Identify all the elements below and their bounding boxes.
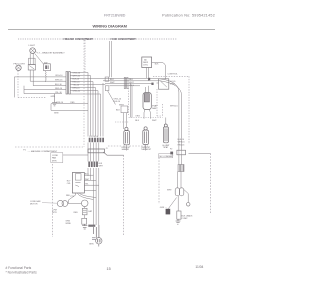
door switch twisted wire <box>45 71 46 82</box>
svg-text:BLK: BLK <box>110 79 114 81</box>
overload ovals <box>175 188 179 196</box>
svg-text:WHT: WHT <box>99 165 104 167</box>
power plug <box>96 238 102 244</box>
wires motor bottom <box>144 110 145 119</box>
wires through connector <box>88 143 99 226</box>
harness wire labels right <box>73 72 81 92</box>
wire curve to cold control <box>152 63 166 79</box>
wire cfm to compressor <box>68 202 82 204</box>
svg-text:MTR: MTR <box>52 212 57 214</box>
small box below-left of bus <box>105 86 109 91</box>
center vertical wires to evap <box>130 83 132 117</box>
wire curve to right drop B <box>160 81 182 150</box>
svg-text:WHT: WHT <box>110 82 115 84</box>
left dashed vertical <box>52 164 54 237</box>
svg-text:RED: RED <box>66 195 71 197</box>
connector J2 bars <box>66 72 68 95</box>
capacitor <box>82 208 87 215</box>
svg-text:123456: 123456 <box>89 136 98 138</box>
small box above left cylinder <box>121 106 128 113</box>
junction dots on bus <box>148 78 150 80</box>
right dashed enclosure top <box>153 75 189 77</box>
svg-text:HEATER: HEATER <box>122 148 130 151</box>
svg-text:COND: COND <box>52 155 59 157</box>
plug prong <box>92 237 96 239</box>
hatched resistor block <box>178 165 184 172</box>
right bottom wire labels <box>178 139 185 147</box>
ground block <box>82 218 87 224</box>
svg-text:CONTROL: CONTROL <box>168 73 179 75</box>
wire drops from food label <box>109 41 111 77</box>
svg-text:ORG: ORG <box>135 116 140 118</box>
right box dashed edge <box>210 154 212 214</box>
solid line left of connector box <box>63 154 88 156</box>
fresh food light bulb <box>30 48 36 54</box>
svg-text:MOTOR: MOTOR <box>30 203 38 205</box>
ground clamp dark <box>166 209 171 215</box>
svg-text:FOOD COMPARTMENT: FOOD COMPARTMENT <box>111 38 137 41</box>
svg-text:BLK-16: BLK-16 <box>73 78 81 80</box>
inline connector B bars <box>124 78 125 89</box>
dark blob left of connector <box>170 152 173 155</box>
svg-text:WHT: WHT <box>152 120 157 122</box>
center long dashed vertical <box>128 88 130 115</box>
svg-text:COMP: COMP <box>182 218 189 220</box>
svg-text:P2: P2 <box>170 149 172 151</box>
svg-text:* Non-Illustrated Parts: * Non-Illustrated Parts <box>6 270 38 274</box>
diagonal wire from small box <box>108 91 116 105</box>
defrost heater wire stub <box>126 145 128 151</box>
header rule <box>8 29 215 31</box>
svg-text:RED: RED <box>74 212 79 214</box>
relay box <box>72 173 84 194</box>
svg-text:CAP: CAP <box>88 210 93 213</box>
wires ADC to bus <box>145 68 147 79</box>
relay wires to bundle <box>84 175 98 190</box>
dashed stub below cold control <box>156 89 158 116</box>
third cylinder <box>163 124 168 143</box>
wire relay to compressor <box>69 193 76 203</box>
svg-text:J2: J2 <box>123 146 125 148</box>
center bottom solid to dashed corner <box>103 152 123 155</box>
svg-text:# Functional Parts: # Functional Parts <box>6 266 32 270</box>
svg-text:OVL: OVL <box>67 183 72 185</box>
svg-text:11/04: 11/04 <box>195 265 203 269</box>
machine compartment dashed divider <box>15 146 83 148</box>
dashed drop from freezer label <box>84 40 86 72</box>
light switch upper box <box>29 58 35 64</box>
right center dashed vertical <box>158 158 160 205</box>
svg-text:MC COMPART: MC COMPART <box>160 155 175 158</box>
small box bottom right <box>177 211 181 219</box>
svg-text:· — MACHINE COMPARTMENT: · — MACHINE COMPARTMENT <box>27 150 58 153</box>
condenser fan label box <box>51 153 63 163</box>
ground symbol left <box>52 94 57 106</box>
harness wires right of connector <box>70 73 155 95</box>
ground symbol bottom right <box>176 219 181 224</box>
defrost heater cylinder <box>124 127 130 145</box>
wires connector to overload <box>178 155 180 165</box>
adaptive defrost control box <box>142 57 152 68</box>
svg-text:WHT-16: WHT-16 <box>170 106 178 108</box>
svg-text:WIRE: WIRE <box>66 223 72 225</box>
freezer light dashed wire <box>17 71 19 98</box>
power cord wires <box>94 225 99 238</box>
power cord dark blob <box>88 225 95 227</box>
svg-text:BLK-16: BLK-16 <box>114 101 122 103</box>
light switch box <box>28 65 35 71</box>
svg-text:WIRING DIAGRAM: WIRING DIAGRAM <box>93 24 128 29</box>
svg-text:Publication No: 5995421452: Publication No: 5995421452 <box>162 14 215 18</box>
mc compartment label box <box>159 154 173 158</box>
svg-text:THERMOST: THERMOST <box>141 149 152 151</box>
ground symbol bottom left <box>82 224 87 229</box>
compressor circle <box>81 200 88 207</box>
svg-text:RED: RED <box>70 102 75 104</box>
machine divider dashed right segment <box>108 145 122 147</box>
evap thermostat cylinder <box>143 127 149 145</box>
harness wires left of connector <box>14 70 66 97</box>
svg-text:YEL: YEL <box>85 184 89 186</box>
svg-text:LT – BRACKET ASSEMBLY: LT – BRACKET ASSEMBLY <box>38 52 66 55</box>
svg-text:BLK: BLK <box>129 79 133 81</box>
wire stub to third cylinder <box>165 118 167 125</box>
svg-text:BLK: BLK <box>135 120 139 122</box>
wires bulb to switch <box>29 53 31 64</box>
wire bulb to door switch diagonal <box>35 54 44 65</box>
svg-text:LIGHT: LIGHT <box>29 45 36 47</box>
freezer partition dashed vertical <box>83 40 85 147</box>
svg-text:15: 15 <box>107 267 111 271</box>
svg-text:FREEZER COMPARTMENT: FREEZER COMPARTMENT <box>64 38 94 41</box>
compressor wire down <box>84 207 86 209</box>
harness connector box <box>88 149 105 153</box>
plug cord end <box>98 244 100 247</box>
svg-text:ORG: ORG <box>129 85 134 87</box>
svg-text:WHT: WHT <box>167 189 172 191</box>
svg-text:BLK: BLK <box>116 109 120 111</box>
svg-text:PTC: PTC <box>71 196 75 198</box>
svg-text:FAN: FAN <box>52 157 57 160</box>
svg-text:GRN →: GRN → <box>160 207 167 209</box>
harness left wire labels <box>55 75 63 94</box>
door switch box <box>44 64 51 71</box>
bus wires to evaporator section <box>103 81 160 86</box>
svg-text:MTR: MTR <box>52 160 57 162</box>
curves relay to bundle <box>77 193 93 200</box>
wires motor top <box>144 87 146 93</box>
wire cap to ground <box>84 215 86 219</box>
svg-text:GRN-16: GRN-16 <box>56 102 64 104</box>
sensor circle <box>186 203 190 207</box>
inline connector A <box>105 77 109 81</box>
svg-text:BLK-16: BLK-16 <box>178 139 184 141</box>
right dashed enclosure right edge <box>188 76 190 144</box>
evap fan motor <box>143 93 151 110</box>
svg-text:CTRL: CTRL <box>170 84 176 86</box>
cold control box <box>159 79 169 89</box>
right box top edge <box>189 153 211 155</box>
right connector box <box>177 150 186 155</box>
harness terminal blobs lower <box>88 162 98 168</box>
svg-text:J1: J1 <box>106 148 108 150</box>
svg-text:GRN: GRN <box>89 244 94 246</box>
svg-text:RED-16: RED-16 <box>178 144 185 146</box>
svg-text:WHT: WHT <box>129 82 134 84</box>
wire curve to right drop A <box>155 78 179 150</box>
svg-text:FAN: FAN <box>152 107 157 110</box>
harness vertical bundle <box>88 73 103 137</box>
svg-text:CTRL: CTRL <box>143 64 148 66</box>
dashed junction line <box>129 117 162 119</box>
freezer light bulb <box>16 65 21 70</box>
bus labels <box>110 79 135 87</box>
svg-text:TSTAT: TSTAT <box>163 146 169 149</box>
svg-text:GRN: GRN <box>54 113 59 115</box>
dashed junction line lower left <box>115 121 129 123</box>
wire overload down <box>177 196 179 211</box>
wires box to cylinder <box>122 113 124 129</box>
condenser fan motor circles <box>57 200 63 206</box>
thermostat wire stub <box>145 145 147 151</box>
svg-text:WHT-16: WHT-16 <box>178 142 185 144</box>
harness terminal blobs upper <box>89 138 104 143</box>
wire to sensor circle <box>184 190 188 203</box>
cabinet top dashed line <box>18 38 177 40</box>
svg-text:FRT21BW8D: FRT21BW8D <box>104 14 126 18</box>
aux wires to bundle <box>51 104 88 111</box>
svg-text:BLK: BLK <box>155 64 159 66</box>
